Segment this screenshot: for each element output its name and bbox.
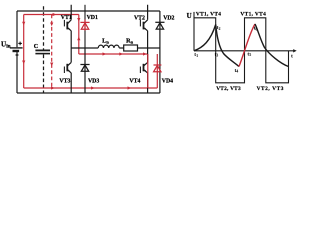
wire: VT2 branch xyxy=(147,5,149,48)
arrow down on left red vertical (upper) xyxy=(22,22,25,26)
wire: left edge lower segment xyxy=(16,52,18,93)
arrow right on bottom red line (middle) xyxy=(91,86,95,89)
arrow right on top red line xyxy=(53,13,57,16)
svg-text:VT1, VT4: VT1, VT4 xyxy=(196,11,221,17)
capacitor C branch wire (dashed, lower) xyxy=(43,55,45,93)
arrow right on bottom red line (right) xyxy=(128,86,132,89)
svg-text:VT2: VT2 xyxy=(134,15,145,21)
diode VD2 (black, pointing up) on right edge xyxy=(155,22,164,29)
waveform: current t4-t6 (red) xyxy=(239,24,255,67)
svg-text:U: U xyxy=(187,12,192,20)
svg-text:VT1, VT4: VT1, VT4 xyxy=(240,11,266,17)
wire: VD4 branch (red) xyxy=(156,54,158,88)
arrow down on dashed red loop (upper) xyxy=(50,23,53,27)
waveform: negative pulse 1 / positive pulse 2 / negative pulse 2 outline xyxy=(216,18,289,83)
resistor Rn xyxy=(124,45,138,51)
wire: VD3 branch xyxy=(84,48,86,93)
svg-text:Ln: Ln xyxy=(102,38,109,45)
waveform: t axis (horizontal) with arrow xyxy=(194,50,294,52)
wire: mid rail (load line) xyxy=(71,47,160,49)
transistor VT4 (IGBT) xyxy=(140,62,147,73)
arrow right on load red line (2) xyxy=(119,52,123,55)
waveform: U axis (vertical) xyxy=(193,12,195,51)
voltage source Uin battery plates xyxy=(10,48,23,51)
label + (source polarity) xyxy=(18,42,22,46)
svg-text:VD3: VD3 xyxy=(88,78,99,84)
wire: top DC rail xyxy=(17,10,160,12)
arrow down on dashed red loop (lower) xyxy=(50,63,53,67)
svg-text:VT2, VT3: VT2, VT3 xyxy=(257,86,284,92)
arrow right on bottom red line (left) xyxy=(51,86,55,89)
svg-text:VD2: VD2 xyxy=(163,15,174,21)
transistor VT1 (IGBT) xyxy=(64,20,71,31)
wire: red loop overlay through VT4 branch xyxy=(147,54,149,88)
svg-text:C: C xyxy=(34,44,38,50)
wire: current loop top line (red) xyxy=(24,14,79,16)
waveform: current decay t6-end (black) xyxy=(255,24,289,67)
wire: VT4 branch xyxy=(147,48,149,93)
svg-text:t2: t2 xyxy=(217,25,221,31)
svg-text:t3: t3 xyxy=(215,52,219,58)
arrow down on left red vertical (lower) xyxy=(22,61,25,65)
arrow right on load red line (3) xyxy=(143,52,147,55)
capacitor C branch wire (dashed, upper) xyxy=(43,6,45,49)
wire: current loop bottom line (red) xyxy=(24,87,158,89)
svg-text:VT1: VT1 xyxy=(61,15,72,21)
svg-text:VT3: VT3 xyxy=(59,78,70,84)
wire: load current line under Ln,Rn (red) xyxy=(79,53,148,55)
svg-text:VT2, VT3: VT2, VT3 xyxy=(216,86,241,92)
svg-text:t6: t6 xyxy=(254,26,258,32)
label - (source polarity) xyxy=(16,54,19,56)
wire: VT3 branch xyxy=(70,48,72,93)
waveform: positive pulse 1 outline xyxy=(194,18,216,51)
svg-text:Rn: Rn xyxy=(126,38,134,45)
inductor Ln xyxy=(98,45,119,48)
svg-text:t4: t4 xyxy=(235,68,239,74)
wire: red riser between VT1 and VD1 xyxy=(78,15,80,55)
wire: VD1 branch xyxy=(84,5,86,48)
transistor VT2 (IGBT) xyxy=(140,20,147,31)
arrow up on red riser xyxy=(77,36,80,40)
wire: bottom DC rail xyxy=(17,92,160,94)
wire: left edge upper segment xyxy=(16,11,18,47)
waveform: current decay t2-t4 (black) xyxy=(216,25,239,67)
svg-text:t5: t5 xyxy=(247,51,251,57)
arrow right on load red line (1) xyxy=(103,52,107,55)
transistor VT3 (IGBT) xyxy=(64,62,71,73)
capacitor C plates xyxy=(35,50,50,53)
wire: VT1 branch xyxy=(70,5,72,48)
svg-text:VT4: VT4 xyxy=(129,78,140,84)
arrow down on red riser xyxy=(77,18,80,22)
wire: dashed red loop through capacitor xyxy=(51,15,53,89)
waveform: current rise t1-t2 (black) xyxy=(194,25,216,51)
wire: red overlay through VD1 xyxy=(84,20,86,31)
diode VD4 (red, pointing up) xyxy=(154,65,162,72)
svg-text:VD1: VD1 xyxy=(87,15,98,21)
svg-text:t1: t1 xyxy=(194,52,198,58)
wire: current loop left vertical (red) xyxy=(23,15,25,89)
svg-text:VD4: VD4 xyxy=(162,78,173,84)
svg-text:t: t xyxy=(291,54,293,60)
wire: right edge (VD2 branch) xyxy=(159,11,161,93)
diode VD1 (red, pointing up) xyxy=(80,22,89,29)
diode VD3 (black, pointing up) xyxy=(80,65,89,72)
